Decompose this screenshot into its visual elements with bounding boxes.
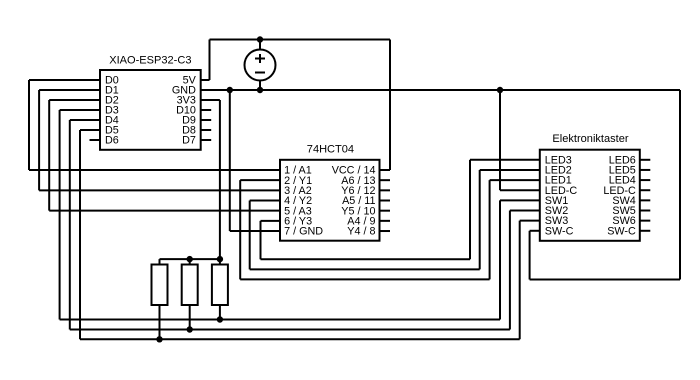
svg-text:D7: D7 [182, 135, 196, 147]
svg-text:D6: D6 [105, 135, 119, 147]
svg-text:74HCT04: 74HCT04 [307, 143, 354, 155]
svg-text:SW-C: SW-C [607, 225, 636, 237]
svg-text:XIAO-ESP32-C3: XIAO-ESP32-C3 [109, 54, 191, 66]
svg-text:Y4 / 8: Y4 / 8 [347, 226, 375, 238]
svg-text:7 / GND: 7 / GND [284, 226, 323, 238]
svg-text:SW-C: SW-C [545, 225, 574, 237]
svg-text:Elektroniktaster: Elektroniktaster [552, 133, 628, 145]
